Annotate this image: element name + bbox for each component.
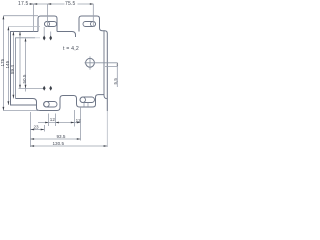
extension/centerline x=93.5 <box>92 4 94 27</box>
svg-text:23: 23 <box>34 125 40 130</box>
dim 12 line <box>38 122 81 124</box>
bottom-centre slot hole <box>44 102 49 107</box>
svg-text:50.5: 50.5 <box>22 74 27 83</box>
dim 23 line <box>30 129 44 131</box>
extension line y=26.5 (slot bottom) <box>9 26 41 28</box>
bottom extension x=30.5 <box>29 112 31 147</box>
svg-text:t = 4,2: t = 4,2 <box>63 46 79 52</box>
extension line y=88.5 <box>19 88 45 90</box>
bottom extension x=74.5 <box>74 110 76 127</box>
inner bend line rectangle <box>16 38 36 99</box>
body outline (front plate) <box>11 32 39 106</box>
bottom-centre lug contour <box>16 95 105 111</box>
text 75.5 <box>65 0 78 5</box>
right inner bend line <box>104 31 107 99</box>
right vertical dimension line <box>116 63 118 87</box>
top edge between lugs with bend-down stub <box>57 32 76 38</box>
right short extension line <box>105 66 118 68</box>
diamond arrow pair bottom <box>43 86 46 91</box>
svg-text:5,5: 5,5 <box>113 78 118 85</box>
inner bend line faint right part <box>35 37 40 39</box>
extension/centerline x=47.5 <box>47 4 49 27</box>
left dim line 2 <box>7 27 9 105</box>
extension line y=15.5 (lug top) <box>4 15 39 17</box>
svg-text:130.5: 130.5 <box>53 141 65 146</box>
bottom-right slot (capsule) <box>80 97 95 103</box>
extension x=55.5 <box>55 114 57 127</box>
right dim arrows <box>117 63 119 67</box>
extension line y=110.5 (lug bottom) <box>4 110 40 112</box>
top-left mounting lug <box>38 16 57 32</box>
extension line x=33.5 <box>33 4 35 32</box>
top dimension line <box>29 3 94 5</box>
hole horizontal centerline / extension <box>85 62 118 64</box>
hole vertical centerline <box>89 56 91 69</box>
dim 93.5 line <box>30 138 80 140</box>
svg-text:17.5: 17.5 <box>18 1 29 7</box>
dim 12a arrows <box>45 122 48 124</box>
top-right slot (capsule) <box>83 22 96 27</box>
vertical dim stubs with diamond arrows <box>43 27 45 37</box>
left dim line 1 (overall) <box>2 16 4 111</box>
left dim line 3 <box>12 32 14 99</box>
top-left slot (capsule) <box>45 22 57 27</box>
svg-text:75.5: 75.5 <box>65 1 76 7</box>
bottom-centre slot (capsule) <box>44 102 58 108</box>
top-right mounting lug with step to right edge <box>79 16 107 111</box>
svg-text:93.5: 93.5 <box>57 134 66 139</box>
left dim line 5 <box>25 40 27 92</box>
svg-text:89.4: 89.4 <box>10 65 15 74</box>
bottom extension x=107.5 <box>106 111 108 147</box>
diamond arrow pair top <box>43 36 46 41</box>
dim 12b arrows <box>71 122 75 124</box>
svg-text:12: 12 <box>50 117 56 122</box>
dim 130.5 line <box>30 145 107 147</box>
svg-text:12: 12 <box>76 118 82 123</box>
top-right slot hole <box>91 22 96 27</box>
bottom extension x=44.5 <box>43 125 45 132</box>
bottom-right slot hole <box>80 97 85 102</box>
left dim line 4 <box>19 32 21 89</box>
hole with centerlines <box>86 58 95 67</box>
bottom extension x=80.5 <box>80 107 82 141</box>
extension x=48.5 <box>48 114 50 127</box>
top-left slot hole <box>45 22 50 27</box>
top dim arrows <box>30 3 34 5</box>
bottom-right slot ticks <box>84 103 88 107</box>
